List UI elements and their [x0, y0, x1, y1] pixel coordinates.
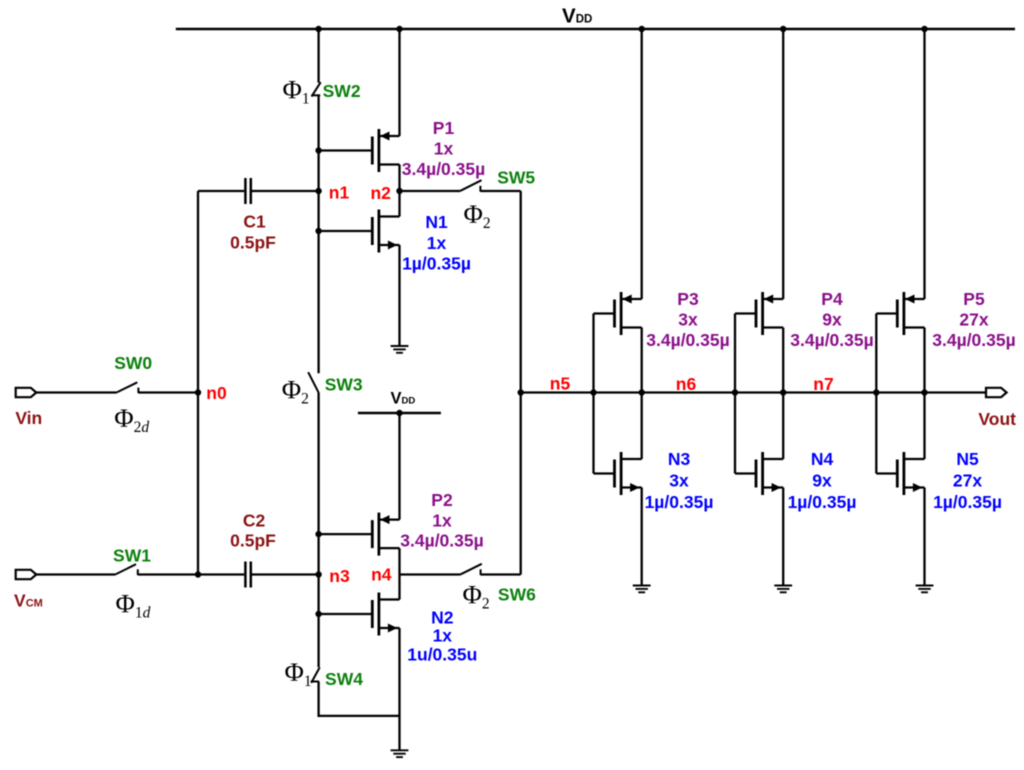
svg-text:n4: n4 [371, 565, 392, 585]
svg-text:SW4: SW4 [325, 669, 363, 689]
svg-text:Vout: Vout [978, 409, 1016, 429]
svg-text:SW1: SW1 [113, 545, 151, 565]
svg-text:3x: 3x [678, 309, 698, 329]
svg-text:27x: 27x [953, 470, 982, 490]
svg-text:3.4µ/0.35µ: 3.4µ/0.35µ [932, 330, 1015, 350]
svg-text:n6: n6 [676, 374, 697, 394]
svg-text:1µ/0.35µ: 1µ/0.35µ [402, 253, 471, 273]
svg-text:N4: N4 [811, 449, 834, 469]
svg-text:P1: P1 [433, 118, 455, 138]
svg-text:1x: 1x [434, 138, 454, 158]
svg-text:N2: N2 [431, 607, 454, 627]
svg-text:1µ/0.35µ: 1µ/0.35µ [788, 492, 857, 512]
svg-text:P4: P4 [821, 289, 843, 309]
svg-text:3.4µ/0.35µ: 3.4µ/0.35µ [646, 330, 729, 350]
svg-text:P5: P5 [963, 289, 985, 309]
svg-text:27x: 27x [959, 309, 988, 329]
svg-text:P2: P2 [431, 490, 453, 510]
svg-text:1x: 1x [433, 625, 453, 645]
svg-text:P3: P3 [677, 289, 699, 309]
svg-text:n0: n0 [206, 383, 227, 403]
svg-text:3.4µ/0.35µ: 3.4µ/0.35µ [790, 330, 873, 350]
svg-text:n7: n7 [813, 374, 833, 394]
svg-text:N1: N1 [425, 212, 448, 232]
svg-text:SW2: SW2 [323, 81, 361, 101]
svg-text:1µ/0.35µ: 1µ/0.35µ [933, 492, 1002, 512]
svg-text:SW3: SW3 [325, 374, 363, 394]
svg-text:1µ/0.35µ: 1µ/0.35µ [645, 492, 714, 512]
svg-text:n5: n5 [550, 374, 571, 394]
svg-text:C2: C2 [243, 510, 266, 530]
svg-text:N5: N5 [956, 449, 979, 469]
svg-text:9x: 9x [822, 309, 842, 329]
svg-text:1u/0.35u: 1u/0.35u [407, 644, 477, 664]
svg-text:SW0: SW0 [114, 353, 152, 373]
svg-text:SW6: SW6 [498, 584, 536, 604]
svg-text:9x: 9x [812, 470, 832, 490]
svg-text:0.5pF: 0.5pF [230, 530, 276, 550]
svg-text:1x: 1x [432, 511, 452, 531]
svg-text:n3: n3 [329, 566, 350, 586]
svg-text:n2: n2 [370, 183, 391, 203]
svg-text:3x: 3x [669, 470, 689, 490]
svg-text:0.5pF: 0.5pF [230, 233, 276, 253]
svg-text:N3: N3 [668, 449, 691, 469]
svg-text:SW5: SW5 [497, 168, 535, 188]
svg-text:Vin: Vin [15, 408, 42, 428]
svg-text:1x: 1x [427, 233, 447, 253]
svg-text:3.4µ/0.35µ: 3.4µ/0.35µ [402, 159, 485, 179]
svg-text:C1: C1 [243, 211, 266, 231]
svg-text:3.4µ/0.35µ: 3.4µ/0.35µ [400, 530, 483, 550]
svg-text:n1: n1 [329, 182, 350, 202]
